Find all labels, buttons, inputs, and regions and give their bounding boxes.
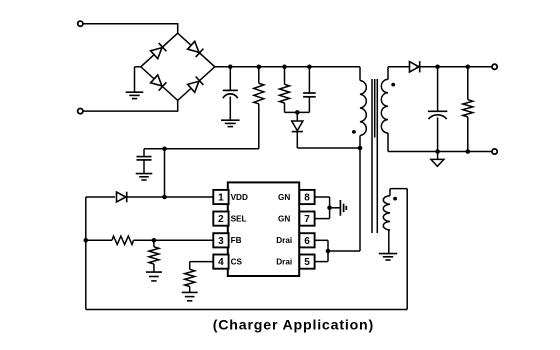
capacitor C3 (snubber)	[303, 93, 316, 97]
node T1 primary polarity dot	[352, 130, 356, 134]
transformer T1 auxiliary winding	[383, 196, 390, 230]
label pin name CS	[231, 258, 243, 267]
label pin name GN (pin 8)	[278, 193, 290, 202]
resistor R2 (snubber)	[280, 84, 290, 103]
wire R4 bottom lead	[153, 264, 155, 272]
wire bridge diamond	[141, 33, 215, 100]
label pin name GN (pin 7)	[278, 215, 290, 224]
pin 1 box	[213, 190, 228, 204]
wire top input	[83, 23, 178, 33]
svg-text:(Charger Application): (Charger Application)	[213, 317, 374, 333]
node DC output - terminal	[492, 149, 497, 154]
svg-text:Drai: Drai	[276, 258, 292, 267]
transformer T1 primary winding	[360, 81, 366, 136]
wire pin 6 drain wire	[315, 239, 328, 241]
wire C2 bottom lead	[143, 160, 145, 173]
wire DC bus rail	[215, 67, 360, 81]
node AC input L (top terminal)	[78, 21, 83, 26]
resistor R6 (load)	[463, 100, 473, 117]
pin 8 box	[299, 190, 314, 204]
ground bridge	[126, 92, 144, 98]
wire C4 top lead	[437, 67, 439, 112]
capacitor C4 (output electrolytic)	[428, 111, 448, 119]
wire pin 8 GND wire	[315, 196, 330, 198]
transformer T1 secondary winding	[381, 79, 388, 133]
wire FB wire right	[134, 239, 214, 241]
pin 4 box	[213, 255, 228, 269]
wire T1 aux top lead	[390, 189, 407, 196]
node junction drain/snubber	[358, 146, 363, 151]
ground C2	[136, 174, 153, 180]
pin 2 box	[213, 212, 228, 226]
node junction C4 bottom	[435, 149, 440, 154]
diode D7 (VDD rectifier)	[117, 192, 127, 203]
wire C3 top lead	[308, 67, 310, 93]
wire R6 bottom lead	[467, 117, 469, 152]
svg-text:VDD: VDD	[231, 193, 248, 202]
transformer T1 core	[372, 79, 377, 233]
node junction R6 top	[466, 65, 471, 70]
svg-text:4: 4	[218, 257, 224, 268]
ground R4	[146, 272, 162, 281]
ground signal (IC)	[340, 200, 346, 216]
wire R2 top lead	[284, 67, 286, 85]
node junction FB rail	[84, 238, 89, 243]
pin 7 box	[299, 212, 314, 226]
svg-text:6: 6	[304, 236, 310, 247]
wire GND pins join	[329, 197, 331, 219]
wire T1 primary bottom / drain node	[359, 136, 361, 252]
wire T1 aux bottom lead	[388, 230, 390, 253]
wire D5 cathode to drain node	[297, 132, 360, 148]
wire drain to transformer	[328, 250, 360, 252]
wire snubber bottom join	[285, 111, 310, 113]
wire C2 top lead	[143, 149, 145, 156]
svg-text:2: 2	[218, 214, 224, 225]
wire aux right rail	[406, 189, 408, 310]
node junction VDD/C2 feed	[162, 195, 167, 200]
node junction R6 bottom	[466, 149, 471, 154]
svg-text:7: 7	[304, 214, 310, 225]
node junction C3/rail	[307, 65, 312, 70]
svg-text:FB: FB	[231, 236, 242, 245]
wire VDD feed vertical	[164, 149, 166, 197]
node junction FB divider	[152, 238, 157, 243]
node junction snubber/D5	[295, 110, 300, 115]
node T1 secondary polarity dot	[391, 83, 395, 87]
capacitor C1 (bulk electrolytic)	[223, 90, 238, 98]
wire bridge negative lead	[135, 67, 142, 92]
diode D2 (bridge top-right)	[187, 41, 203, 57]
node AC input N (bottom terminal)	[78, 109, 83, 114]
svg-text:Drai: Drai	[276, 236, 292, 245]
ground output (open triangle)	[431, 159, 444, 166]
node T1 aux polarity dot	[393, 197, 397, 201]
ground C1	[221, 120, 240, 126]
resistor R5 (current sense)	[185, 269, 195, 286]
label pin name VDD	[231, 193, 248, 202]
wire drain pins join	[327, 240, 329, 261]
diode D3 (bridge bottom-left)	[150, 75, 166, 91]
wire output positive rail	[416, 66, 492, 68]
label pin name FB	[231, 236, 242, 245]
node junction GND pins	[327, 206, 332, 211]
wire pin 5 drain wire	[315, 261, 328, 263]
svg-text:1: 1	[218, 193, 224, 204]
diode D1 (bridge top-left)	[150, 43, 166, 59]
wire R4 top lead	[153, 240, 155, 247]
op-amp U1 controller body	[228, 182, 299, 276]
svg-text:3: 3	[218, 236, 224, 247]
svg-text:5: 5	[304, 257, 310, 268]
ground R5	[182, 292, 198, 300]
wire pin 7 GND wire	[315, 218, 330, 220]
wire R1 to VDD cap	[144, 104, 259, 149]
wire C3 bottom lead	[308, 97, 310, 113]
node junction C2 wire	[162, 147, 167, 152]
wire R2 bottom lead	[284, 103, 286, 112]
resistor R1 (startup)	[254, 83, 264, 103]
node junction drain pins	[326, 249, 331, 254]
wire bottom input	[83, 100, 178, 111]
wire output ground lead	[437, 152, 439, 160]
node junction C4 top	[435, 65, 440, 70]
svg-text:GN: GN	[278, 193, 290, 202]
capacitor C2 (VDD)	[137, 157, 152, 160]
wire to signal ground	[330, 207, 341, 209]
wire CS pin wire	[190, 262, 214, 270]
resistor R3 (FB series)	[112, 236, 134, 244]
wire R6 top lead	[467, 67, 469, 100]
pin 6 box	[299, 233, 314, 247]
diode D6 (output rectifier)	[410, 61, 420, 72]
svg-text:SEL: SEL	[231, 215, 247, 224]
wire C1 bottom lead	[229, 97, 231, 120]
pin 5 box	[299, 255, 314, 269]
wire left feedback rail	[85, 197, 87, 310]
svg-text:GN: GN	[278, 215, 290, 224]
diode D5 (clamp, open symbol)	[292, 121, 303, 132]
label pin name Drai (pin 6)	[276, 236, 292, 245]
diode D4 (bridge bottom-right)	[187, 77, 203, 93]
label pin name Drai (pin 5)	[276, 258, 292, 267]
wire C4 bottom lead	[437, 117, 439, 151]
node junction R2/rail	[282, 65, 287, 70]
wire R5 bottom lead	[189, 287, 191, 293]
wire VDD pin wire	[86, 196, 214, 198]
label caption (Charger Application)	[213, 317, 374, 333]
node DC output + terminal	[492, 64, 497, 69]
wire T1 secondary top lead	[388, 67, 409, 80]
svg-text:CS: CS	[231, 258, 243, 267]
wire FB wire left	[86, 239, 112, 241]
wire C1 top lead	[229, 67, 231, 90]
node junction C1/rail	[228, 65, 233, 70]
node junction R1/rail	[257, 65, 262, 70]
svg-text:8: 8	[304, 193, 310, 204]
ground T1 aux	[379, 254, 398, 260]
wire bottom return rail	[86, 309, 407, 311]
wire R1 top lead	[258, 67, 260, 84]
wire T1 secondary bottom lead	[388, 133, 492, 152]
resistor R4 (FB divider)	[149, 247, 159, 264]
wire D5 anode lead	[296, 112, 298, 121]
label pin name SEL	[231, 215, 247, 224]
pin 3 box	[213, 233, 228, 247]
